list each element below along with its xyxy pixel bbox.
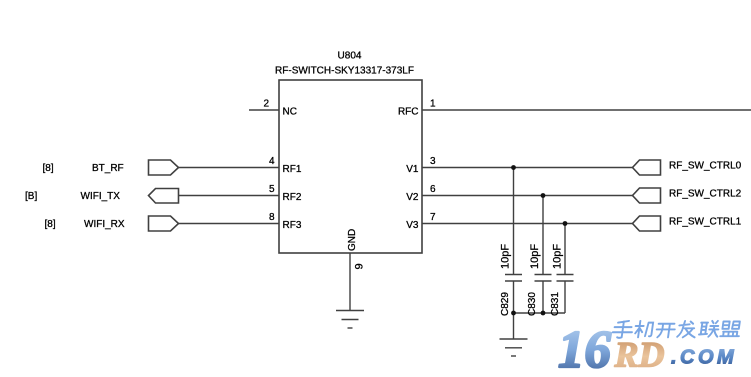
svg-text:RF_SW_CTRL0: RF_SW_CTRL0 xyxy=(669,161,742,172)
svg-text:NC: NC xyxy=(283,107,297,118)
svg-text:V3: V3 xyxy=(406,220,419,231)
svg-text:9: 9 xyxy=(354,263,366,269)
junction V3 xyxy=(563,221,568,226)
svg-text:RF1: RF1 xyxy=(283,164,302,175)
wire V2 drop to C830 xyxy=(542,196,544,275)
wire WIFI_RX to RF3 xyxy=(179,223,280,225)
wire pin2 NC stub xyxy=(249,109,279,111)
svg-text:16: 16 xyxy=(558,321,612,377)
svg-text:C830: C830 xyxy=(527,292,538,316)
svg-text:GND: GND xyxy=(347,229,358,251)
wire V3 to RF_SW_CTRL1 xyxy=(422,223,633,225)
svg-text:C829: C829 xyxy=(500,292,511,316)
port flag BT_RF xyxy=(149,160,179,175)
svg-text:RF_SW_CTRL2: RF_SW_CTRL2 xyxy=(669,189,742,200)
svg-text:10pF: 10pF xyxy=(529,244,541,269)
svg-text:5: 5 xyxy=(269,184,275,195)
port flag RF_SW_CTRL0 xyxy=(633,160,661,175)
port flag RF_SW_CTRL1 xyxy=(633,216,661,231)
capacitor C829 xyxy=(505,275,522,282)
svg-text:10pF: 10pF xyxy=(552,244,564,269)
svg-text:[8]: [8] xyxy=(43,163,54,174)
wire pin9 GND xyxy=(349,253,351,311)
wire pin1 RFC to right edge xyxy=(422,109,751,111)
svg-text:RF3: RF3 xyxy=(283,220,302,231)
svg-text:RF-SWITCH-SKY13317-373LF: RF-SWITCH-SKY13317-373LF xyxy=(275,66,414,77)
junction bus C830 xyxy=(541,311,546,316)
capacitor C831 xyxy=(557,275,574,282)
svg-text:[8]: [8] xyxy=(45,219,56,230)
svg-text:.COM: .COM xyxy=(671,347,737,369)
svg-text:C831: C831 xyxy=(550,292,561,316)
junction V2 xyxy=(541,193,546,198)
port flag RF_SW_CTRL2 xyxy=(633,188,661,203)
ground symbol capacitors xyxy=(500,339,528,356)
svg-text:V1: V1 xyxy=(406,164,419,175)
junction V1 xyxy=(511,165,516,170)
svg-text:V2: V2 xyxy=(406,192,419,203)
wire V1 drop to C829 xyxy=(513,168,515,275)
wire V2 to RF_SW_CTRL2 xyxy=(422,195,633,197)
svg-text:BT_RF: BT_RF xyxy=(92,163,124,174)
svg-text:RF_SW_CTRL1: RF_SW_CTRL1 xyxy=(669,217,742,228)
wire bus to ground xyxy=(513,313,515,339)
logo chinese 手机开发联盟 xyxy=(612,321,741,338)
svg-text:3: 3 xyxy=(430,156,436,167)
svg-text:7: 7 xyxy=(430,212,436,223)
IC U804 body xyxy=(279,80,422,253)
port flag WIFI_RX xyxy=(149,216,179,231)
svg-text:WIFI_RX: WIFI_RX xyxy=(84,219,125,230)
ground symbol pin9 xyxy=(336,311,364,329)
junction bus C829 xyxy=(511,311,516,316)
capacitor C830 xyxy=(535,275,552,282)
svg-text:RD: RD xyxy=(614,335,665,375)
svg-text:4: 4 xyxy=(269,156,275,167)
wire C829 bottom xyxy=(513,281,515,313)
wire WIFI_TX to RF2 xyxy=(179,195,280,197)
wire ground bus xyxy=(514,312,566,314)
svg-text:[B]: [B] xyxy=(25,191,37,202)
wire BT_RF to RF1 xyxy=(179,167,280,169)
svg-text:RF2: RF2 xyxy=(283,192,302,203)
svg-text:6: 6 xyxy=(430,184,436,195)
svg-text:1: 1 xyxy=(430,99,436,110)
svg-text:RFC: RFC xyxy=(398,107,419,118)
port flag WIFI_TX xyxy=(149,189,179,204)
wire V3 drop to C831 xyxy=(564,224,566,275)
svg-text:2: 2 xyxy=(263,99,269,110)
wire V1 to RF_SW_CTRL0 xyxy=(422,167,633,169)
svg-text:WIFI_TX: WIFI_TX xyxy=(81,191,121,202)
svg-text:U804: U804 xyxy=(338,51,362,62)
wire C831 bottom xyxy=(564,281,566,313)
svg-text:10pF: 10pF xyxy=(500,244,512,269)
wire C830 bottom xyxy=(542,281,544,313)
svg-text:8: 8 xyxy=(269,212,275,223)
